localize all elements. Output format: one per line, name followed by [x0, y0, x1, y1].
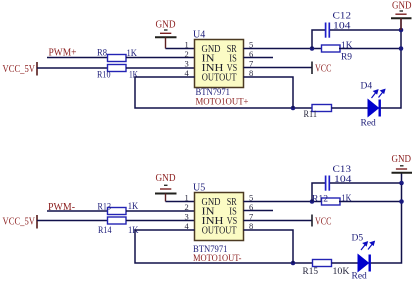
wire [166, 48, 195, 50]
svg-text:OUTOUT: OUTOUT [202, 226, 237, 237]
svg-text:C13: C13 [333, 165, 352, 175]
svg-text:MOTO1OUT+: MOTO1OUT+ [196, 97, 249, 108]
wire (C13 branch) [312, 183, 325, 202]
ground GND (top left) [155, 20, 177, 49]
power VCC_5V [3, 62, 38, 76]
wire [339, 48, 401, 50]
wire (pin4 OUT down-left) [135, 77, 312, 108]
wire [330, 29, 401, 31]
wire [339, 201, 402, 203]
power VCC (bottom) [312, 215, 332, 228]
svg-text:R10: R10 [97, 71, 111, 81]
svg-text:GND: GND [392, 154, 412, 165]
wire (pin7 to VCC) [244, 67, 312, 69]
svg-text:VCC_5V: VCC_5V [3, 64, 36, 75]
wire [332, 262, 359, 264]
resistor R13 [98, 201, 139, 215]
wire [126, 57, 195, 59]
power VCC (top) [312, 62, 332, 75]
svg-text:2: 2 [185, 202, 189, 212]
node (junction R12/GND line) [399, 199, 404, 204]
node (junction C13/GND line) [399, 181, 404, 186]
node (junction C13 branch) [310, 199, 315, 204]
wire (pin7 to VCC) [244, 220, 312, 222]
svg-text:Red: Red [361, 119, 377, 129]
LED D5 [352, 234, 375, 282]
svg-text:R13: R13 [98, 202, 112, 212]
node (junction R9/GND line) [399, 46, 404, 51]
resistor R15 [303, 260, 350, 278]
svg-text:1K: 1K [341, 41, 353, 51]
wire (pin6 stub) [244, 210, 274, 212]
capacitor C12 [326, 12, 352, 38]
resistor R12 [312, 194, 352, 205]
svg-text:VCC: VCC [315, 217, 332, 228]
resistor R11 [304, 105, 332, 120]
wire [166, 201, 195, 203]
svg-text:OUTOUT: OUTOUT [202, 73, 237, 84]
svg-text:R8: R8 [97, 49, 107, 59]
wire (pin8) [244, 77, 294, 108]
wire [371, 173, 402, 263]
svg-text:D5: D5 [352, 234, 364, 244]
svg-text:1: 1 [185, 40, 189, 50]
svg-text:VCC: VCC [315, 64, 332, 75]
wire [37, 220, 108, 222]
svg-text:1K: 1K [129, 70, 138, 80]
svg-text:1: 1 [185, 193, 189, 203]
node (junction C12/GND line) [399, 28, 404, 33]
svg-text:R15: R15 [303, 267, 319, 277]
svg-text:3: 3 [185, 59, 189, 69]
wire (pin8) [244, 230, 294, 263]
svg-text:1K: 1K [127, 48, 138, 58]
svg-text:GND: GND [156, 173, 176, 184]
wire (pin5 to R12) [244, 201, 322, 203]
svg-text:1K: 1K [342, 194, 352, 204]
svg-text:2: 2 [185, 49, 189, 59]
svg-text:C12: C12 [333, 12, 352, 22]
svg-text:Red: Red [352, 272, 368, 282]
capacitor C13 [326, 165, 352, 191]
svg-text:GND: GND [392, 1, 412, 12]
LED D4 [361, 82, 385, 129]
wire [381, 19, 401, 109]
ground GND (bottom left) [155, 173, 177, 202]
power VCC_5V (bottom) [3, 215, 38, 229]
wire (pin4 OUT down-left) [135, 230, 313, 263]
ground GND (bottom right) [392, 154, 413, 173]
svg-text:1K: 1K [128, 201, 139, 211]
resistor R10 [97, 65, 138, 81]
op-amp U5 (BTN7971 half-bridge IC) [193, 183, 244, 256]
node (junction pin8/out) [291, 261, 296, 266]
svg-text:R14: R14 [98, 226, 112, 236]
svg-text:R11: R11 [304, 110, 318, 120]
svg-text:VCC_5V: VCC_5V [3, 217, 36, 228]
svg-text:R9: R9 [341, 52, 352, 62]
wire [37, 67, 108, 69]
op-amp U4 (BTN7971 half-bridge IC) [193, 30, 244, 99]
wire [47, 210, 108, 212]
ground GND (top right) [391, 1, 412, 31]
wire [126, 220, 195, 222]
wire (C12 branch) [312, 30, 325, 49]
wire [47, 57, 108, 59]
svg-text:D4: D4 [361, 82, 373, 92]
wire [332, 107, 369, 109]
node (junction pin8/out) [291, 106, 296, 111]
svg-text:3: 3 [185, 212, 189, 222]
svg-text:R12: R12 [312, 194, 328, 204]
svg-text:GND: GND [156, 20, 176, 31]
wire [330, 182, 402, 184]
wire (pin6 stub) [244, 57, 274, 59]
wire [126, 67, 195, 69]
node (junction C12 branch) [310, 46, 315, 51]
wire (pin5 to R9) [244, 48, 322, 50]
svg-text:10K: 10K [333, 267, 350, 277]
wire [126, 210, 195, 212]
resistor R9 [322, 41, 353, 62]
resistor R8 [97, 48, 137, 62]
resistor R14 [98, 217, 139, 236]
